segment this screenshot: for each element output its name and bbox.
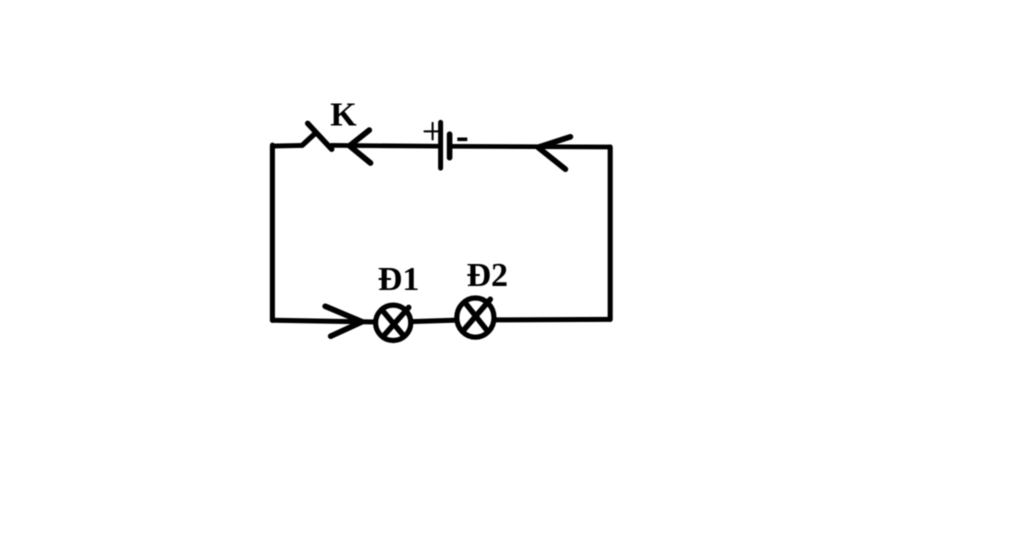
current arrow 2 (pointing left) xyxy=(538,137,570,169)
wire between lamps xyxy=(411,320,457,322)
current arrow 3 (pointing right) xyxy=(325,306,362,336)
wire right vertical xyxy=(608,147,613,320)
lamp D1 circle xyxy=(376,305,411,340)
battery negative plate (short) xyxy=(447,134,453,158)
lamp D2 circle xyxy=(457,298,494,337)
wire bottom-left segment xyxy=(272,320,375,322)
wire left vertical xyxy=(270,145,275,320)
lamp D1 cross xyxy=(383,307,409,335)
svg-text:K: K xyxy=(330,97,357,134)
label + xyxy=(424,123,440,140)
svg-text:Đ1: Đ1 xyxy=(378,261,420,298)
wire battery-to-corner segment xyxy=(452,144,610,149)
label - xyxy=(457,138,467,142)
svg-text:Đ2: Đ2 xyxy=(467,257,509,294)
lamp D2 cross xyxy=(464,299,491,330)
wire bottom-right segment xyxy=(494,317,610,323)
current arrow 1 (pointing left) xyxy=(350,130,371,163)
switch K pivot leg xyxy=(302,133,316,146)
wire switch-to-battery segment xyxy=(332,143,439,149)
battery positive plate (long) xyxy=(438,122,443,168)
wire top-left segment xyxy=(272,143,302,149)
switch K blade xyxy=(308,123,332,149)
